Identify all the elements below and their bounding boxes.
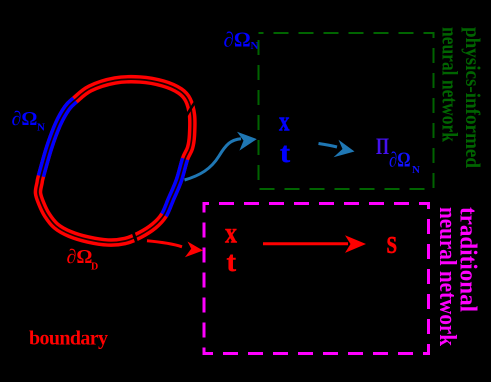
svg-text:x: x — [279, 107, 290, 138]
svg-text:∂Ω: ∂Ω — [67, 246, 93, 268]
svg-text:physics-informed: physics-informed — [461, 27, 485, 168]
svg-text:N: N — [37, 122, 45, 134]
svg-text:S: S — [387, 233, 398, 259]
svg-text:t: t — [227, 247, 237, 278]
red curved arrow blob to magenta box — [147, 241, 203, 257]
svg-text:neural network: neural network — [434, 207, 460, 347]
svg-text:N: N — [412, 164, 420, 176]
domain boundary blob: red band — [38, 79, 192, 242]
svg-text:t: t — [280, 138, 291, 169]
green dashed box (physics-informed neural network) — [259, 33, 434, 189]
svg-text:N: N — [251, 40, 259, 52]
label dOmega_N (left of blob) — [12, 108, 46, 134]
curved steel-blue arrow blob to green box — [185, 132, 257, 180]
svg-text:∂Ω: ∂Ω — [12, 108, 38, 130]
blob break tick top-right — [182, 102, 196, 125]
svg-text:Π: Π — [376, 134, 389, 159]
label dOmega_N (above green box) — [224, 28, 259, 53]
blob: blue Neumann segments — [38, 79, 192, 242]
red arrow inside magenta box — [263, 235, 366, 253]
pinn arrow (steel blue, inside green box) — [319, 140, 355, 157]
svg-text:∂Ω: ∂Ω — [224, 28, 251, 52]
magenta dashed box (traditional neural network) — [204, 204, 429, 354]
label Pi_dOmega_N — [376, 134, 420, 176]
svg-text:D: D — [91, 262, 98, 273]
label dOmega_D (below blob) — [67, 246, 99, 273]
blob: black center parting line — [38, 79, 192, 242]
svg-text:x: x — [225, 216, 237, 249]
svg-text:boundary: boundary — [29, 328, 108, 350]
svg-text:∂Ω: ∂Ω — [389, 148, 411, 172]
svg-text:neural network: neural network — [438, 27, 463, 143]
blob break tick bottom — [133, 231, 138, 246]
